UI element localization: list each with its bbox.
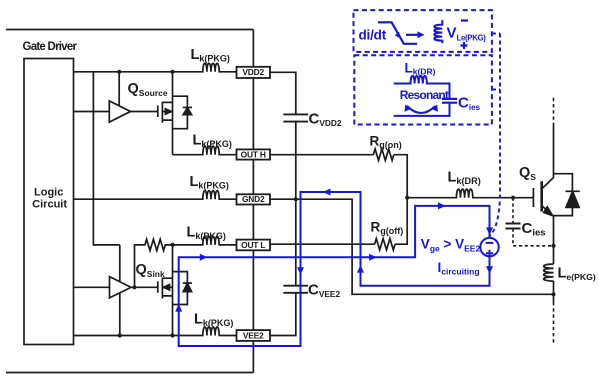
- arrow resonant arc: [405, 105, 438, 114]
- svg-text:OUT L: OUT L: [241, 240, 265, 250]
- svg-text:QSource: QSource: [128, 81, 168, 98]
- wire GND2 rail with coil: [73, 191, 236, 200]
- label L_k(PKG) 4 on OUT L: [187, 225, 226, 242]
- buffer U1: [109, 101, 130, 122]
- node VDD2-rail junction B: [170, 70, 174, 74]
- node GND2 decoupling junction: [294, 197, 298, 201]
- label Q_Source: [128, 81, 168, 98]
- capacitor C_ies resonant: [442, 99, 457, 103]
- label V_Le(PKG): [447, 25, 487, 43]
- label L_k(DR): [448, 170, 481, 187]
- wire Q_Sink gate: [131, 286, 158, 288]
- wire GND2 node to C_VEE2: [295, 199, 297, 286]
- label L_k(PKG) 1: [191, 47, 230, 64]
- node emitter Cies junction: [551, 244, 555, 248]
- transistor Q_Source: [158, 72, 173, 155]
- label C_ies: [522, 220, 546, 239]
- wire dashed C_ies to emitter: [513, 229, 554, 246]
- svg-text:QSink: QSink: [136, 262, 166, 279]
- label L_k(PKG) 2: [193, 133, 232, 150]
- wire dashed annotation link: [490, 34, 500, 237]
- box logic circuit: [24, 59, 74, 345]
- wire blue circulating loop: [179, 192, 490, 346]
- label Q_Sink: [136, 262, 166, 279]
- buffer U2: [110, 277, 132, 298]
- svg-text:VLe(PKG): VLe(PKG): [447, 25, 487, 43]
- svg-text:OUT H: OUT H: [241, 149, 266, 159]
- label pin VDD2: [242, 67, 264, 77]
- arrow loop right at source top: [438, 202, 446, 209]
- svg-text:Lk(PKG): Lk(PKG): [190, 174, 229, 191]
- svg-text:Circuit: Circuit: [32, 199, 67, 211]
- label I_circuiting: [438, 260, 480, 277]
- pin OUT H: [237, 149, 271, 159]
- arrow loop down at source bottom: [486, 266, 493, 274]
- svg-text:GND2: GND2: [242, 194, 265, 204]
- svg-text:Lk(PKG): Lk(PKG): [187, 225, 226, 242]
- label L_k(PKG) 3: [190, 174, 229, 191]
- resistor R_g(off): [375, 239, 395, 250]
- label plus polarity: [461, 42, 468, 49]
- node gate resistor junction: [405, 196, 409, 200]
- pin GND2: [237, 194, 271, 204]
- arrowhead on slope: [395, 32, 401, 39]
- wire VDD2 to C_VDD2: [270, 72, 296, 114]
- label C_ies blue: [458, 95, 481, 113]
- label L_k(DR) blue: [405, 61, 436, 77]
- wire R_g(on) to gate node: [394, 155, 407, 198]
- arrow loop up mid branch: [357, 265, 364, 273]
- arrow implication: [406, 31, 425, 38]
- label pin OUT H: [241, 149, 266, 159]
- svg-text:Vge > VEE2: Vge > VEE2: [421, 237, 481, 254]
- svg-text:Logic: Logic: [34, 187, 63, 199]
- box annotation di/dt dashed: [354, 10, 492, 52]
- wire pin column vertical: [252, 30, 254, 373]
- label pin GND2: [242, 194, 265, 204]
- diode D_sink body: [173, 272, 193, 305]
- node emitter return junction: [551, 292, 555, 296]
- svg-text:di/dt: di/dt: [359, 28, 387, 43]
- label C_VEE2: [308, 282, 340, 300]
- wire OUT H rail with coil: [173, 146, 237, 155]
- arrow loop left at GND2: [323, 189, 331, 196]
- resistor R_g(on): [373, 149, 393, 160]
- wire U2 supply drop: [119, 245, 121, 336]
- inductor symbol V_Le source: [434, 20, 442, 43]
- arrow loop right at OUT L 1: [200, 254, 208, 261]
- wire emitter solid below coil: [553, 281, 555, 302]
- wire resonant loop bottom: [394, 103, 450, 116]
- wire resonant loop top with coil: [394, 76, 450, 99]
- node VDD2-rail junction A: [117, 70, 121, 74]
- svg-text:QS: QS: [519, 165, 536, 182]
- label C_VDD2: [309, 111, 342, 129]
- svg-text:Lk(DR): Lk(DR): [448, 170, 481, 187]
- label Resonant: [400, 88, 449, 102]
- label minus polarity: [461, 19, 468, 21]
- diode D_QS freewheel: [554, 174, 580, 216]
- wire U1 supply drop: [118, 72, 120, 110]
- arrow loop down into source top: [486, 227, 493, 235]
- wire dashed collector offpage: [553, 96, 555, 126]
- wire U2 input: [73, 286, 110, 288]
- wire U1 input: [73, 111, 109, 113]
- label L_k(PKG) 5 on VEE2: [194, 312, 233, 329]
- wire dashed gate to C_ies: [512, 198, 514, 224]
- label L_e(PKG): [558, 266, 596, 283]
- arrow loop up at VEE2 branch: [175, 304, 182, 312]
- svg-text:Lk(PKG): Lk(PKG): [193, 133, 232, 150]
- svg-text:Cies: Cies: [522, 220, 546, 239]
- label Gate Driver: [23, 41, 78, 53]
- inductor L_e(PKG): [544, 264, 554, 281]
- wire C_VDD2 to GND2 node: [295, 122, 297, 200]
- capacitor C_ies: [506, 224, 521, 229]
- node VEE2-rail junction Qsink source: [170, 333, 174, 337]
- wire Q_Source gate: [131, 111, 158, 113]
- svg-text:VEE2: VEE2: [243, 330, 264, 340]
- svg-text:Resonant: Resonant: [400, 88, 449, 102]
- node R-gate junction: [132, 285, 136, 289]
- source V_ge circle: [480, 238, 498, 257]
- svg-text:Gate Driver: Gate Driver: [23, 41, 78, 53]
- wire VEE2 rail with coil: [73, 327, 237, 336]
- wire OUT L to R_g(off): [271, 243, 375, 245]
- pin OUT L: [237, 240, 271, 251]
- pin VEE2: [237, 330, 271, 341]
- svg-text:Le(PKG): Le(PKG): [558, 266, 596, 283]
- svg-text:Icircuiting: Icircuiting: [438, 260, 480, 277]
- svg-text:Cies: Cies: [458, 95, 481, 113]
- transistor Q_Sink: [158, 245, 173, 336]
- arrow loop right at OUT L 2: [369, 254, 377, 261]
- svg-text:Rg(off): Rg(off): [371, 220, 404, 237]
- svg-text:CVEE2: CVEE2: [308, 282, 340, 300]
- svg-text:Lk(DR): Lk(DR): [405, 61, 436, 77]
- box annotation resonant dashed: [354, 55, 492, 124]
- wire gate rail with L_k(DR) coil: [407, 189, 533, 198]
- capacitor C_VDD2: [283, 114, 308, 121]
- wire dashed emitter offpage: [553, 302, 555, 343]
- label R_g(off): [371, 220, 404, 237]
- label pin OUT L: [241, 240, 265, 250]
- label Q_S: [519, 165, 536, 182]
- wire top VDD2 feed: [6, 29, 253, 31]
- wire buffer supply drop left: [93, 72, 119, 245]
- label pin VEE2: [243, 330, 264, 340]
- capacitor C_VEE2: [283, 286, 308, 293]
- wire GND2 to emitter return: [270, 199, 554, 294]
- resistor R_pulldown: [135, 239, 173, 287]
- svg-text:CVDD2: CVDD2: [309, 111, 342, 129]
- wire VDD2 rail with coil gap: [74, 63, 237, 72]
- label V_ge greater V_EE2: [421, 237, 481, 254]
- svg-text:Lk(PKG): Lk(PKG): [194, 312, 233, 329]
- svg-text:Lk(PKG): Lk(PKG): [191, 47, 230, 64]
- wire OUT H to R_g(on): [270, 154, 373, 156]
- wire R_g(off) to gate node: [395, 198, 407, 245]
- arrow loop down at cap branch: [297, 267, 304, 275]
- symbol falling slope: [378, 22, 417, 44]
- transistor Q_S IGBT: [533, 126, 553, 264]
- svg-text:VDD2: VDD2: [242, 67, 264, 77]
- node VEE2-rail junction U2: [118, 333, 122, 337]
- node gate Cies junction: [511, 196, 515, 200]
- svg-text:Rg(on): Rg(on): [370, 134, 402, 151]
- node OUT L drain junction: [171, 243, 175, 247]
- label Logic Circuit: [32, 187, 67, 211]
- label R_g(on): [370, 134, 402, 151]
- wire OUT L rail with coil: [173, 236, 237, 245]
- wire bottom VEE2 feed: [6, 372, 253, 374]
- pin VDD2: [237, 67, 271, 78]
- label di/dt: [359, 28, 387, 43]
- diode D_source body: [173, 96, 193, 129]
- wire C_VEE2 to VEE2 pin: [270, 293, 296, 336]
